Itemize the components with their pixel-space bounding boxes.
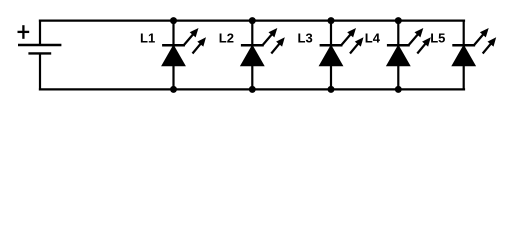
svg-text:L5: L5 [430, 31, 445, 46]
svg-text:L1: L1 [140, 31, 155, 46]
svg-text:L4: L4 [365, 31, 381, 46]
svg-text:L2: L2 [219, 31, 234, 46]
svg-text:L3: L3 [298, 31, 313, 46]
